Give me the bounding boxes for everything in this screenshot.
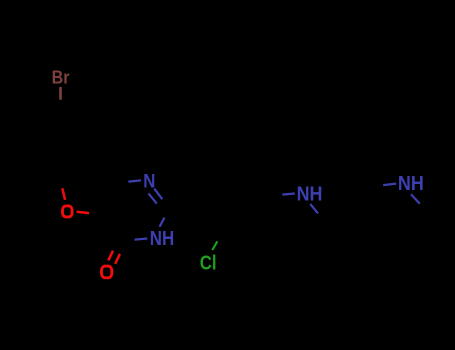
bond stub C2pip-NH xyxy=(383,184,396,186)
bond stub C4-N3 xyxy=(135,239,148,240)
atom label Cl xyxy=(200,251,217,274)
svg-text:Cl: Cl xyxy=(200,251,217,274)
svg-text:NH: NH xyxy=(297,184,323,206)
double bond N1=C2 line b xyxy=(148,193,156,203)
bond stub NH-C6pip xyxy=(411,194,420,203)
bond stub C7a-O1 xyxy=(62,188,65,200)
atom label N-H (piperidine NH) xyxy=(398,173,424,195)
svg-text:NH: NH xyxy=(150,226,174,249)
double bond N1=C2 line a xyxy=(154,189,162,200)
bond stub C2-N3 xyxy=(160,218,165,227)
bond stub C-Br xyxy=(59,87,62,100)
bond stub Car-NH (aniline) xyxy=(282,194,295,195)
svg-text:Br: Br xyxy=(52,66,70,87)
atom label N1 (pyrimidine) xyxy=(143,170,155,191)
atom label Br xyxy=(52,66,70,87)
atom label N-H (aniline NH) xyxy=(297,184,323,206)
bond stub C8a-N1 xyxy=(128,180,141,181)
double bond C4=O line a xyxy=(108,251,113,261)
bond stub O1-C9a xyxy=(77,212,90,213)
atom label O (carbonyl) xyxy=(102,266,112,278)
double bond C4=O line b xyxy=(115,254,120,264)
svg-text:N: N xyxy=(143,170,155,191)
bond stub C-Cl xyxy=(212,241,217,250)
bond stub NH-CH2 xyxy=(310,204,318,213)
svg-text:NH: NH xyxy=(398,173,424,195)
atom label N3-H (pyrimidinone NH) xyxy=(150,226,174,249)
atom label O1 (furan) xyxy=(63,206,73,217)
